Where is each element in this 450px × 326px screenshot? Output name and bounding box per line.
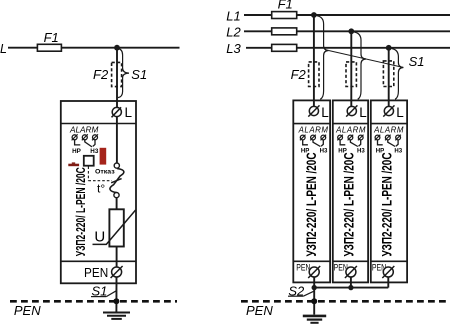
fuse F1 phase L3 (272, 44, 297, 51)
switch S1 brace phase L2 (354, 32, 366, 99)
svg-text:F1: F1 (278, 0, 293, 12)
svg-text:L3: L3 (226, 41, 241, 56)
wire drop L3 (388, 48, 390, 107)
fuse F1 phase L2 (272, 28, 297, 35)
wire drop L1 (313, 15, 315, 107)
fuse F2 (left, dashed) (93, 62, 122, 86)
svg-text:ALARM: ALARM (298, 125, 329, 134)
switch S1 brace phase L1 (317, 16, 329, 100)
svg-text:УЗП2-220/ L-PEN /20C: УЗП2-220/ L-PEN /20C (341, 152, 356, 256)
wire PEN collector (314, 287, 388, 289)
terminal L of U3 (346, 105, 367, 120)
indicator window (left) (84, 156, 94, 166)
svg-text:PEN: PEN (246, 303, 273, 318)
svg-text:ALARM: ALARM (335, 125, 366, 134)
switch S2 label (288, 283, 314, 298)
svg-text:L1: L1 (226, 9, 240, 24)
svg-text:H3: H3 (357, 148, 365, 155)
SPD U4 body (371, 100, 407, 282)
alarm contact stubs and blade (left) (75, 140, 95, 147)
svg-text:УЗП2-220/ L-PEN /20C: УЗП2-220/ L-PEN /20C (304, 152, 319, 256)
alarm terminal 2 (left) (82, 134, 88, 140)
wire U4 PEN down (387, 277, 389, 288)
svg-text:L2: L2 (226, 25, 241, 40)
SPD U1 body (left) (61, 101, 136, 283)
terminal L of U2 (308, 105, 329, 120)
U2 dividers (293, 124, 330, 262)
wire L terminal to thermal contact (116, 117, 118, 164)
wire PEN terminal to bus (115, 277, 117, 312)
wire L1 (244, 14, 450, 16)
terminal L of U4 (383, 105, 404, 120)
S1 linkage line (329, 51, 404, 68)
node bus junction (left) (113, 298, 119, 304)
svg-text:L: L (359, 105, 367, 120)
node junction L3 (386, 45, 392, 51)
wire drop L2 (350, 31, 352, 106)
wire varistor to PEN terminal (116, 247, 118, 268)
wire thermal to varistor (116, 198, 118, 210)
alarm terminal 3 (left) (92, 134, 98, 140)
svg-text:S1: S1 (409, 54, 425, 69)
svg-text:H3: H3 (320, 148, 328, 155)
svg-text:PEN: PEN (84, 265, 108, 280)
terminal PEN of U3 (334, 262, 357, 278)
fuse F2 phase L1 (dashed) (291, 62, 319, 87)
fuse F1 phase L1 (272, 0, 297, 19)
wire L2 (244, 30, 450, 32)
U1 top section divider (61, 123, 136, 125)
node collector junction 1 (312, 285, 317, 290)
U4 dividers (371, 124, 407, 262)
SPD U2 body (293, 100, 330, 282)
svg-text:Отказ: Отказ (95, 169, 115, 176)
terminal PEN of U2 (296, 262, 320, 278)
svg-text:L: L (321, 105, 329, 120)
svg-text:U: U (94, 229, 105, 246)
alarm contacts U3 (337, 135, 365, 155)
svg-text:L: L (396, 105, 404, 120)
svg-text:H3: H3 (90, 148, 99, 155)
node bus junction (right) (311, 298, 317, 304)
svg-text:F1: F1 (44, 30, 59, 45)
svg-text:S1: S1 (131, 67, 147, 82)
svg-text:F2: F2 (93, 67, 109, 82)
svg-text:УЗП2-220/ L-PEN /20C: УЗП2-220/ L-PEN /20C (379, 152, 394, 256)
U1 PEN section divider (61, 260, 136, 262)
svg-text:ALARM: ALARM (69, 124, 98, 134)
node junction left (114, 45, 120, 51)
wire junction down to F2 (116, 48, 118, 107)
PEN bus (right, dashed) (241, 300, 450, 303)
svg-text:PEN: PEN (296, 262, 310, 272)
svg-text:HP: HP (72, 148, 81, 155)
node junction L1 (311, 12, 317, 18)
red indicator bar (left) (100, 148, 107, 165)
SPD U3 body (333, 100, 368, 282)
alarm contacts U4 (375, 135, 403, 155)
PEN bus (left, dashed) (10, 300, 177, 303)
svg-text:ALARM: ALARM (373, 125, 404, 134)
svg-text:PEN: PEN (14, 303, 41, 318)
svg-text:F2: F2 (291, 67, 307, 82)
svg-text:t°: t° (97, 181, 105, 195)
node collector junction 2 (348, 285, 353, 290)
wire U3 PEN down (350, 277, 352, 288)
svg-text:УЗП2-220/ L-PEN /20C: УЗП2-220/ L-PEN /20C (73, 167, 88, 256)
mechanical linkage dashed (left) (88, 166, 111, 180)
wire F1 to right (61, 47, 179, 49)
node junction L2 (348, 28, 354, 34)
terminal L of U1 (112, 105, 133, 120)
switch S1 brace (left) (118, 49, 147, 98)
wire U2 PEN down (313, 277, 315, 315)
alarm contacts U2 (300, 135, 328, 155)
svg-text:L: L (0, 42, 7, 56)
switch S1 brace phase L3 (392, 49, 404, 100)
terminal PEN of U4 (372, 262, 394, 278)
switch S1 bottom label (91, 283, 116, 298)
fuse F2 phase L3 (dashed) (383, 61, 393, 87)
wire L to F1 (8, 47, 38, 49)
thermal disconnector (left) (110, 163, 124, 198)
contact labels HP H3 (left) (72, 148, 99, 155)
wire L3 (246, 47, 450, 49)
U3 dividers (333, 124, 368, 262)
fuse F2 phase L2 (dashed) (346, 62, 356, 87)
varistor RU1 (left) (93, 209, 136, 246)
small red indicator (left) (68, 162, 79, 166)
svg-text:H3: H3 (394, 148, 402, 155)
ground (right) (303, 316, 326, 323)
svg-text:L: L (125, 105, 133, 120)
fuse F1 (left) (37, 30, 61, 51)
terminal PEN of U1 (84, 265, 123, 280)
alarm terminal 1 (left) (72, 134, 78, 140)
ground (left) (103, 313, 130, 319)
